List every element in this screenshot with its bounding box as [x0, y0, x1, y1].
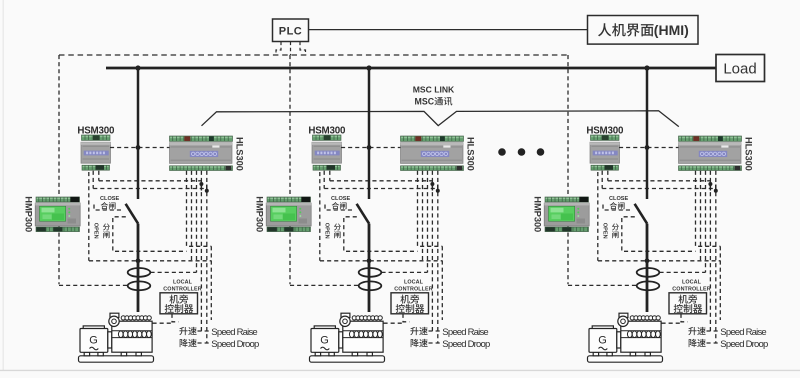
wire: row A horizontal (section 3) [608, 180, 711, 182]
feeder line upper (section 2) [368, 68, 371, 199]
wire: HLS300 pin 4 speed raise (section 2) [431, 171, 433, 331]
svg-text:CONTROLLER: CONTROLLER [163, 286, 201, 292]
wire: row A horizontal (section 2) [330, 180, 433, 182]
label raise Chinese (section 3) [688, 327, 696, 335]
wire: raise row (section 3) [707, 330, 720, 332]
local controller box (section 2) [391, 293, 429, 314]
PLC drop wire left [276, 42, 281, 56]
generator set (section 3) [588, 313, 663, 362]
wire: HSM300 pin B down (section 3) [607, 171, 609, 181]
svg-text:HLS300: HLS300 [744, 137, 755, 171]
bus junction node section1 [135, 65, 140, 70]
label close Chinese (section 1) [101, 202, 108, 209]
svg-text:Speed Droop: Speed Droop [720, 339, 768, 350]
feeder line upper (section 3) [646, 68, 649, 199]
label open Chinese vertical (section 3) [612, 223, 619, 230]
CT upper (section 2) [359, 268, 382, 277]
svg-text:G: G [89, 334, 98, 346]
svg-text:OPEN: OPEN [601, 223, 607, 239]
wire PLC to HMI [309, 29, 588, 31]
wire: open-command frame (section 2) [344, 217, 418, 252]
svg-text:CLOSE: CLOSE [609, 196, 629, 202]
svg-text:HSM300: HSM300 [586, 126, 624, 137]
wire: raise row (section 1) [198, 330, 211, 332]
bus junction node section2 [366, 65, 371, 70]
wire: to lower CT (section 2) [290, 284, 359, 286]
CT lower (section 3) [637, 281, 660, 290]
wire: droop row (section 3) [707, 342, 720, 344]
wire: right riser beside controller (section 1) [210, 246, 212, 320]
wire: to lower CT (section 3) [568, 284, 637, 286]
svg-text:MSC: MSC [415, 96, 435, 106]
node on feeder at HSM row (section 1) [136, 145, 141, 150]
svg-text:OPEN: OPEN [323, 223, 329, 239]
wire: close-command hook (section 1) [94, 205, 122, 211]
wire: HLS300 pin 3 down to CT (section 2) [427, 171, 429, 273]
CT upper (section 1) [128, 268, 151, 277]
wire: open-command frame (section 1) [113, 217, 187, 252]
svg-text:MSC LINK: MSC LINK [413, 85, 455, 95]
wire: HSM300 pin A down to row B (section 1) [92, 171, 94, 189]
wire: upper CT sense (section 1) [151, 271, 197, 273]
label droop Chinese (section 1) [180, 339, 188, 347]
wire: HLS300 pin 2 down (section 1) [191, 171, 193, 261]
HLS300 module (section 2) [401, 136, 464, 171]
node on feeder at bottom row (section 3) [645, 258, 650, 263]
wire: close-command hook (section 3) [603, 205, 631, 211]
svg-text:Speed Droop: Speed Droop [442, 339, 490, 350]
wire: row A horizontal (section 1) [99, 180, 202, 182]
HMI box [588, 16, 699, 45]
svg-text:CONTROLLER: CONTROLLER [672, 286, 710, 292]
svg-text:HSM300: HSM300 [77, 126, 115, 137]
wire: engine to controller (section 3) [662, 322, 682, 324]
wire: row B horizontal (section 2) [324, 188, 438, 190]
svg-text:Load: Load [723, 61, 756, 78]
wire: HLS300 pin 3 down to CT (section 1) [196, 171, 198, 273]
bus junction node section3 [644, 65, 649, 70]
wire: HSM300 to HLS300 (section 2) [341, 147, 401, 149]
label open Chinese vertical (section 2) [334, 223, 341, 230]
wire: to lower CT (section 1) [59, 284, 128, 286]
svg-text:HSM300: HSM300 [308, 126, 346, 137]
svg-text:Speed Raise: Speed Raise [211, 327, 257, 338]
wire: engine to controller (section 2) [384, 322, 404, 324]
wire: dashed drop from PLC bus (section 3) [567, 55, 569, 284]
signal arrow up (section 2) [430, 182, 434, 191]
wire: controller hook (section 2) [403, 314, 410, 322]
breaker blade (section 1) [126, 204, 139, 224]
ellipsis dots between sections [498, 148, 544, 156]
wire: left riser down to bottom row (section 2) [319, 172, 321, 261]
local controller box (section 3) [669, 293, 707, 314]
svg-text:HMP300: HMP300 [533, 196, 544, 232]
label open Chinese vertical (section 1) [103, 223, 110, 230]
label close Chinese (section 3) [610, 202, 617, 209]
svg-text:Speed Raise: Speed Raise [720, 327, 766, 338]
wire: HSM300 pin A down to row B (section 2) [323, 171, 325, 189]
generator set (section 2) [310, 313, 385, 362]
bottom separator line [0, 369, 800, 371]
node on feeder at bottom row (section 1) [136, 258, 141, 263]
HSM300 module (section 1) [81, 135, 111, 170]
svg-text:LOCAL: LOCAL [404, 280, 424, 286]
svg-text:Speed Raise: Speed Raise [442, 327, 488, 338]
svg-text:LOCAL: LOCAL [173, 280, 193, 286]
svg-text:HLS300: HLS300 [466, 137, 477, 171]
wire: upper CT sense (section 3) [660, 271, 706, 273]
svg-text:LOCAL: LOCAL [682, 280, 702, 286]
wire: controller hook (section 1) [172, 314, 179, 322]
wire: HSM300 pin A down to row B (section 3) [601, 171, 603, 189]
wire: HLS300 pin 3 down to CT (section 3) [705, 171, 707, 273]
svg-text:HMP300: HMP300 [24, 196, 35, 232]
feeder line lower (section 2) [368, 224, 371, 312]
wire: dashed drop from PLC bus (section 2) [289, 55, 291, 284]
wire: engine to controller (section 1) [153, 322, 173, 324]
wire: close-command hook (section 2) [325, 205, 353, 211]
wire: droop row (section 1) [198, 342, 211, 344]
HLS300 module (section 1) [170, 136, 233, 171]
label raise Chinese (section 2) [410, 327, 418, 335]
wire: HLS300 pin 1 down (section 3) [696, 171, 721, 247]
wire: HLS300 pin 5 speed droop (section 2) [437, 171, 439, 343]
wire: HLS300 pin 2 down (section 2) [422, 171, 424, 261]
wire: raise row (section 2) [429, 330, 442, 332]
HMP300 module (section 1) [35, 197, 80, 232]
local controller box (section 1) [160, 293, 198, 314]
PLC drop wire right [300, 42, 306, 56]
HMP300 module (section 3) [544, 197, 589, 232]
wire: bottom row horizontal (section 1) [89, 260, 211, 262]
MSC Chinese label [415, 96, 453, 106]
wire: bottom row horizontal (section 2) [320, 260, 442, 262]
label droop Chinese (section 2) [411, 339, 419, 347]
signal arrow down (section 2) [436, 185, 440, 193]
breaker blade (section 2) [357, 204, 370, 224]
signal arrow down (section 3) [714, 185, 718, 193]
CT upper (section 3) [637, 268, 660, 277]
wire: row B horizontal (section 3) [602, 188, 716, 190]
svg-text:HLS300: HLS300 [235, 137, 246, 171]
wire: row B horizontal (section 1) [93, 188, 207, 190]
svg-text:CLOSE: CLOSE [100, 196, 120, 202]
signal arrow down (section 1) [205, 185, 209, 193]
wire: HLS300 pin 1 down (section 2) [418, 171, 443, 247]
label droop Chinese (section 3) [689, 339, 697, 347]
wire: HSM300 pin B down (section 2) [329, 171, 331, 181]
svg-text:PLC: PLC [279, 26, 303, 38]
node on feeder at HSM row (section 2) [367, 145, 372, 150]
svg-text:G: G [598, 334, 607, 346]
breaker blade (section 3) [635, 204, 648, 224]
PLC box [273, 19, 309, 42]
wire: left riser down to bottom row (section 1) [88, 172, 90, 261]
wire: HSM300 to HLS300 (section 1) [110, 147, 170, 149]
label raise Chinese (section 1) [179, 327, 187, 335]
feeder line upper (section 1) [137, 68, 140, 199]
svg-text:CLOSE: CLOSE [331, 196, 351, 202]
signal arrow up (section 1) [199, 182, 203, 191]
HMP300 module (section 2) [266, 197, 311, 232]
HLS300 module (section 3) [679, 136, 742, 171]
svg-text:OPEN: OPEN [92, 223, 98, 239]
wire: HLS300 pin 4 speed raise (section 1) [200, 171, 202, 331]
node on feeder at bottom row (section 2) [367, 258, 372, 263]
wire: droop row (section 2) [429, 342, 442, 344]
feeder line lower (section 1) [137, 224, 140, 312]
svg-text:Speed Droop: Speed Droop [211, 339, 259, 350]
wire: HLS300 pin 2 down (section 3) [700, 171, 702, 261]
HSM300 module (section 3) [590, 135, 620, 170]
svg-text:G: G [320, 334, 329, 346]
wire: HSM300 pin B down (section 1) [98, 171, 100, 181]
wire: HLS300 pin 4 speed raise (section 3) [709, 171, 711, 331]
wire: HLS300 pin 5 speed droop (section 3) [715, 171, 717, 343]
MSC link line [202, 111, 679, 127]
PLC drop wire middle [290, 42, 292, 56]
wire: HSM300 to HLS300 (section 3) [619, 147, 679, 149]
Load box [716, 55, 765, 82]
wire: HLS300 pin 5 speed droop (section 1) [206, 171, 208, 343]
dashed PLC control bus [59, 54, 569, 56]
left edge faint line [2, 0, 4, 370]
svg-text:CONTROLLER: CONTROLLER [394, 286, 432, 292]
CT lower (section 1) [128, 281, 151, 290]
signal arrow up (section 3) [708, 182, 712, 191]
CT lower (section 2) [359, 281, 382, 290]
wire: upper CT sense (section 2) [382, 271, 428, 273]
feeder line lower (section 3) [646, 224, 649, 312]
node on feeder at HSM row (section 3) [645, 145, 650, 150]
main power bus [106, 67, 716, 70]
HSM300 module (section 2) [312, 135, 342, 170]
wire: controller hook (section 3) [681, 314, 688, 322]
wire: open-command frame (section 3) [622, 217, 696, 252]
wire: right riser beside controller (section 2) [441, 246, 443, 320]
label close Chinese (section 2) [332, 202, 339, 209]
wire: bottom row horizontal (section 3) [598, 260, 720, 262]
generator set (section 1) [79, 313, 154, 362]
svg-text:(HMI): (HMI) [654, 22, 689, 38]
svg-text:HMP300: HMP300 [255, 196, 266, 232]
wire: left riser down to bottom row (section 3) [597, 172, 599, 261]
wire: right riser beside controller (section 3) [719, 246, 721, 320]
wire: HLS300 pin 1 down (section 1) [187, 171, 212, 247]
wire: dashed drop from PLC bus (section 1) [58, 55, 60, 284]
